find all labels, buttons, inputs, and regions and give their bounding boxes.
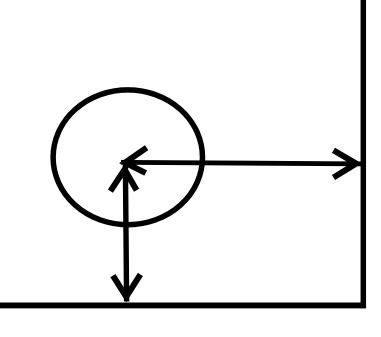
arrowhead left (at circle center, pointing left) <box>125 148 147 173</box>
vertical arrow shaft (center to floor) <box>125 165 126 302</box>
horizontal arrow shaft (center to wall) <box>121 162 361 164</box>
arrowhead up (at circle center, pointing up) <box>110 170 136 192</box>
ball (circle) <box>53 90 202 225</box>
wall (right vertical line) <box>361 0 367 308</box>
arrowhead right (at wall, pointing right) <box>334 150 357 177</box>
arrowhead down (at floor, pointing down) <box>113 275 140 297</box>
floor (bottom horizontal line) <box>0 302 366 308</box>
